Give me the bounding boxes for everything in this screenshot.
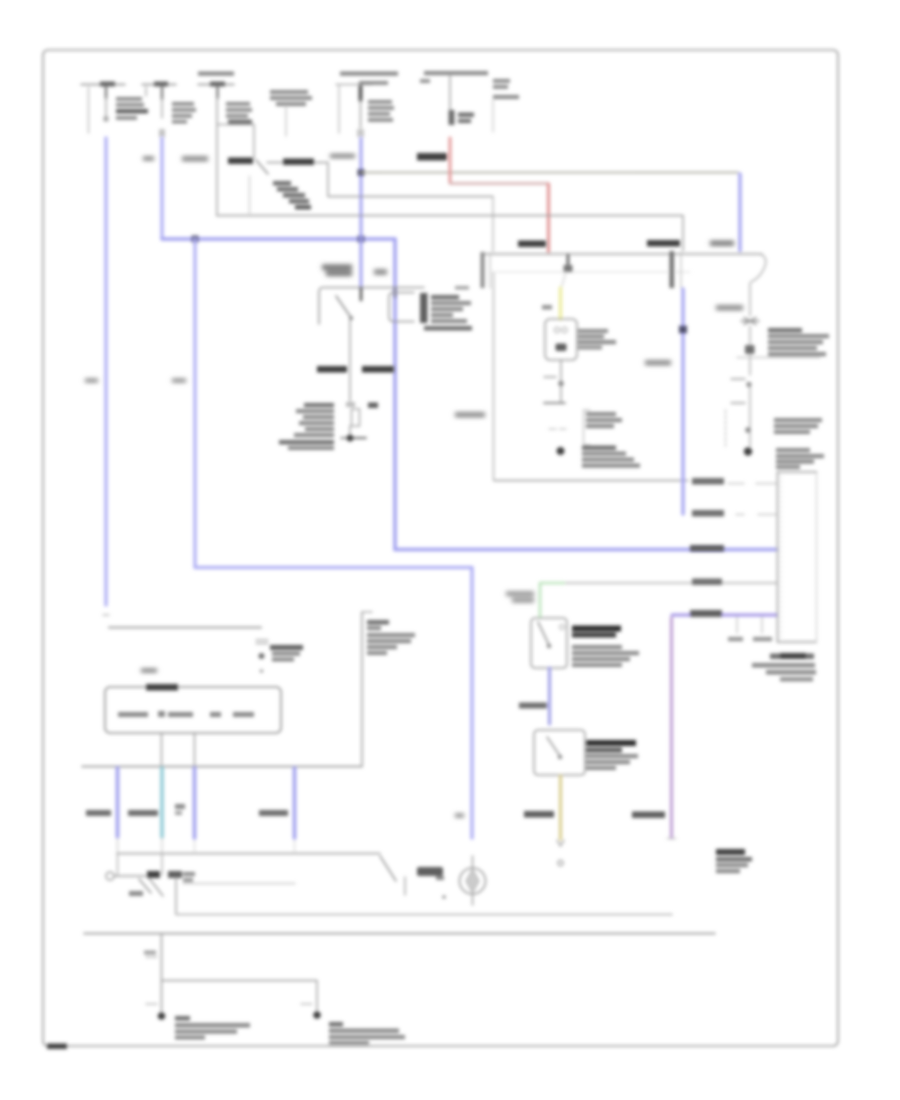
wire y615 label dark: [690, 610, 722, 617]
fuse F3 lead down: [216, 98, 218, 215]
label BLU/WHT left of blue: [645, 360, 671, 366]
thermostat switch node: [558, 381, 564, 387]
wire y514 segments to module: [736, 514, 776, 516]
condenser box bottom edge: [494, 480, 688, 482]
ground G1 text: [175, 1016, 250, 1040]
label BLU left of relay pin1: [322, 265, 352, 277]
A/C switch contact circle: [560, 625, 565, 630]
fuse F2 value label on bar: [154, 82, 168, 87]
radiator fan switch upper lead: [749, 283, 751, 316]
control module box bottom edge: [778, 641, 817, 643]
motor blob tail: [436, 876, 444, 880]
wire bus2 y853: [117, 853, 380, 855]
resistor interior text 2: [158, 711, 165, 717]
compressor terminal wing: [341, 437, 346, 439]
wire RED drop to bus: [547, 184, 550, 252]
wire YEL thermostat: [559, 288, 562, 319]
fusible link F5 side text: [359, 81, 388, 85]
fan switch contact node: [745, 427, 751, 433]
fusible link F5 element: [359, 87, 363, 100]
connector drop text 1: [728, 637, 743, 641]
fuse F1 value label on bar: [100, 82, 115, 87]
switch position bracket: [584, 410, 591, 445]
blower motor circle: [460, 868, 486, 894]
wire LT GRN vertical: [539, 583, 542, 617]
label BLU small wire1: [85, 378, 98, 383]
thermostat feed stub: [567, 255, 570, 270]
fusible link F5 header text: [340, 72, 398, 76]
label BLU/WHT near corner: [710, 241, 734, 247]
wire BLU from F5 to relay: [360, 138, 363, 287]
label BLU left of relay pin2: [374, 269, 387, 275]
label BLU/WHT mid right: [455, 412, 485, 418]
wire BLU horizontal feed: [162, 237, 395, 241]
resistor output lead 2: [194, 733, 196, 766]
wire y914 long: [176, 914, 672, 916]
fuse F2 element: [161, 87, 163, 99]
fuse F1 name text: [116, 97, 148, 120]
fuse F2 top bar: [142, 84, 176, 86]
ground connector tick 2: [146, 1003, 157, 1005]
fan switch end terminal: [744, 447, 752, 455]
fan switch lead 3: [749, 386, 751, 447]
wire bus y254: [483, 253, 762, 255]
switch input circle: [106, 872, 114, 880]
junction node blue at x195: [192, 236, 199, 243]
switch small text: [183, 872, 195, 882]
capacitor name text: [270, 645, 303, 662]
label PPL dark: [632, 812, 665, 819]
wire ignition feed y162: [267, 162, 328, 164]
wire y215 long horizontal: [217, 215, 683, 217]
switch dark blob 2: [168, 871, 182, 878]
label CYN: [128, 810, 158, 816]
connector C left bar: [481, 252, 485, 288]
junction node y172 on blue: [358, 169, 365, 176]
relay pin stub 2: [394, 288, 396, 297]
connector drop tick 2: [761, 617, 763, 633]
resistor interior text 3: [168, 712, 193, 717]
control module name text: [776, 448, 824, 469]
wire YEL end circle: [558, 860, 563, 865]
label small left of yellow: [542, 305, 552, 310]
stub F4 header text: [270, 90, 312, 106]
relay output lead to compressor: [349, 320, 351, 401]
label BLK/YEL mid: [182, 156, 208, 162]
connector C left pin: [489, 253, 491, 288]
label VIO 3: [259, 810, 288, 816]
fusible link F6 right lead: [492, 100, 494, 132]
ground bus small line: [109, 626, 261, 628]
ground branch tick: [301, 1003, 312, 1005]
compressor clutch arrow: [354, 437, 366, 439]
wire VIO drop 3: [293, 768, 297, 838]
A/C switch lever: [538, 622, 549, 645]
connector C right bar: [670, 251, 675, 288]
fusible link F6 header text: [424, 71, 488, 75]
label BLU small wire2: [172, 378, 186, 383]
thermostat contact circle 2: [562, 327, 567, 332]
stub below drop 2: [194, 840, 196, 852]
wire y549 label: [690, 545, 724, 552]
note text block right: [716, 849, 752, 873]
wire BLU blower feed horizontal: [195, 566, 472, 569]
thermostat box: [545, 319, 577, 360]
stub below drop 3: [294, 840, 296, 852]
fuse F1 left lead: [88, 87, 90, 133]
fusible link F5 name text: [368, 100, 394, 122]
control module box left edge: [777, 472, 779, 642]
control module box right edge dotted: [816, 472, 818, 642]
fuse F1 top bar: [81, 84, 125, 86]
thermostat end terminal: [557, 447, 565, 455]
ground branch wire y980: [162, 980, 318, 982]
wire YEL switch output: [559, 776, 562, 839]
thermostat switch tick 2: [544, 402, 565, 404]
ground G2 text: [329, 1022, 405, 1045]
label BLU/WHT mode: [519, 703, 547, 709]
module name text below box: [752, 653, 816, 682]
wire BLU condenser fan motor: [681, 289, 684, 514]
fusible link F5 lead: [360, 100, 362, 128]
heater fan switch box: [534, 730, 585, 775]
switch output drop: [175, 878, 177, 914]
thermostat name text: [578, 329, 616, 350]
label VIO 1: [86, 810, 111, 816]
wire LT GRN green segment: [540, 582, 564, 584]
wire BLU blower feed drop: [470, 568, 473, 838]
thermostat note text: [582, 446, 640, 468]
label dark on bus right: [647, 240, 680, 247]
capacitor node: [259, 653, 265, 659]
heater fan switch node: [558, 755, 562, 759]
connector drop text 2: [753, 637, 772, 641]
motor small dot: [442, 895, 446, 899]
heater fan switch lever: [547, 737, 560, 756]
thermostat dashes: [549, 428, 566, 430]
wire bus1 y766: [82, 766, 362, 768]
motor dark blob: [417, 867, 443, 876]
blower switch lever right: [380, 856, 396, 881]
wire BLU relay coil feed down: [393, 239, 397, 550]
wire BLU drop to blower feed: [193, 239, 196, 567]
label BLU/WHT above y162: [330, 154, 355, 159]
label LT GRN text: [506, 592, 534, 603]
relay name text block: [424, 295, 472, 331]
fuse F3 element: [216, 87, 218, 98]
thermostat switch tick: [544, 376, 556, 378]
compressor name text block: [279, 403, 334, 450]
switch position label: [129, 891, 143, 896]
wire RED from F6: [449, 138, 452, 182]
connector C right pin: [680, 252, 682, 288]
switch position text: [586, 412, 622, 428]
resistor output lead 1: [161, 733, 163, 766]
fusible link F6 value text: [458, 113, 474, 124]
thermostat lower lead: [560, 360, 562, 403]
control module box top edge: [778, 471, 817, 473]
condenser box top thin line: [496, 271, 690, 273]
capacitor lower dot: [260, 669, 264, 673]
wire YEL end tick: [557, 840, 564, 846]
A/C switch name text block: [572, 626, 639, 668]
fuse F1 connector stub: [104, 117, 109, 122]
radiator fan switch X junction: [741, 318, 759, 325]
fan switch node: [746, 382, 751, 387]
module inner pin dotted column: [780, 476, 782, 638]
fuse F3 value label on bar: [210, 82, 225, 87]
wire y162 corner drop: [327, 163, 329, 196]
fuse F2 name text: [172, 102, 196, 124]
fusible link F6 side mark: [420, 79, 430, 83]
fuse F2 right lead: [161, 99, 163, 118]
compressor connector stub: [346, 402, 355, 407]
wire curve to fan switch: [751, 254, 766, 282]
wire BLU relay output horizontal: [395, 548, 776, 552]
wire BLU F1 end tick: [103, 614, 109, 616]
ignition switch lower lead: [249, 176, 251, 214]
page border frame: [43, 50, 838, 1046]
resistor interior text 5: [233, 712, 254, 717]
heater fan switch name text: [586, 740, 638, 770]
fuse F3 branch wire right: [218, 124, 254, 126]
ignition switch stair text block: [273, 181, 311, 210]
fuse F3 top bar: [198, 84, 234, 86]
fuse F2 left lead: [145, 87, 147, 96]
connector drop tick 1: [736, 617, 738, 633]
switch input line: [114, 875, 146, 877]
wire PPL end tick: [667, 838, 676, 840]
blower resistor box: [105, 687, 281, 733]
fuse F3 name text: [226, 102, 252, 124]
thermostat feed connector blob: [564, 265, 573, 272]
wire y483 segments to module: [728, 483, 776, 485]
switch dark blob 1: [147, 871, 160, 878]
wire BLU/WHT mode feed: [548, 668, 551, 724]
compressor thermal protector: [352, 409, 360, 426]
wire BLU from F2: [160, 138, 163, 238]
wire BLU condenser drop: [738, 174, 741, 251]
fan switch position text: [774, 418, 822, 434]
thermostat contact circle 1: [554, 327, 559, 332]
blower motor shaft line: [472, 856, 474, 905]
A/C switch box: [531, 618, 567, 668]
switch position stroke 2: [149, 878, 163, 896]
ground connector text 1: [144, 951, 156, 955]
label dark on ignition feed: [228, 158, 253, 165]
relay pin label: [455, 286, 469, 290]
wire y483 label: [692, 478, 724, 485]
small icon between wires: [175, 804, 185, 815]
fusible link F5 connector stub: [357, 129, 364, 137]
wire LT GRN y583 horizontal: [540, 582, 776, 584]
bus2 drop a: [117, 854, 119, 875]
ground terminal G2: [313, 1011, 321, 1019]
wire PPL vertical: [670, 618, 673, 838]
relay lever joint: [349, 316, 353, 320]
bus2 drop b: [161, 854, 163, 875]
fan switch tick 2: [731, 402, 745, 404]
fusible link F6 name text: [493, 79, 519, 99]
resistor interior text 1: [118, 712, 148, 717]
wire BLU/WHT y615 horizontal: [672, 614, 776, 617]
A/C switch lever node: [547, 644, 551, 648]
condenser box left edge: [493, 272, 495, 480]
wire BLK/YEL y172 horizontal: [361, 172, 738, 174]
junction node blue at x361: [358, 236, 365, 243]
label dark on wire y162: [283, 159, 314, 166]
relay pin stub 1: [360, 288, 363, 300]
wire drop x493 to connector: [492, 197, 494, 252]
wire RED horizontal: [450, 182, 548, 185]
resistor interior text 4: [210, 712, 221, 717]
stub F4 lead: [285, 105, 287, 136]
compressor lead: [349, 426, 351, 434]
wire y215 drop to connector: [682, 216, 684, 251]
heater control panel top tick: [362, 611, 372, 613]
blower resistor header label: [146, 684, 178, 691]
junction diamond on blue: [679, 326, 687, 334]
thermostat feed link: [562, 272, 567, 287]
A/C compressor relay outline: [319, 288, 424, 325]
compressor terminal node: [347, 435, 354, 442]
thermostat element blob: [556, 344, 567, 352]
fuse F1 right lead: [105, 98, 107, 120]
relay coil dark bar: [420, 293, 428, 323]
label dark left of red wire: [417, 153, 447, 161]
label M motor: [368, 403, 378, 409]
ignition switch lever: [256, 160, 268, 174]
fusible link F6 element: [449, 110, 455, 125]
ground branch drop: [316, 981, 318, 1013]
label BLK/WHT dark 2: [362, 366, 394, 373]
wire VIO drop 1: [116, 768, 120, 837]
label dark on bus left: [518, 241, 546, 248]
radiator fan inline connector: [745, 345, 755, 354]
blower motor inner diamond: [466, 869, 479, 893]
stub below cyan: [161, 838, 163, 853]
label BLK/WHT dark 1: [317, 366, 347, 373]
reference underline wire y357: [737, 357, 820, 359]
wire y883 short: [183, 883, 295, 885]
label BLU/WHT fan: [716, 305, 743, 311]
fan switch name text: [768, 328, 829, 356]
fan switch tick 1: [731, 378, 745, 380]
ground connector tick 1: [146, 956, 157, 958]
wire y583 label: [692, 579, 722, 586]
label BLU small blower feed: [455, 813, 464, 818]
fuse F3 branch drop: [253, 125, 255, 159]
wire y514 label: [692, 510, 724, 517]
stub below drop 1: [117, 838, 119, 853]
fuse F3 header text: [198, 72, 234, 76]
relay contact lever: [336, 296, 352, 319]
fusible link F5 top bar: [336, 84, 372, 86]
relay coil outline: [389, 293, 414, 322]
label BLU small left: [143, 156, 154, 161]
fuse F1 element: [105, 87, 107, 98]
capacitor component lines: [256, 640, 268, 644]
wire y196 horizontal: [328, 196, 493, 198]
page number mark on bottom border: [47, 1044, 67, 1050]
radiator fan lead 2: [749, 354, 751, 375]
ground terminal G1: [158, 1012, 166, 1020]
label YEL dark: [524, 811, 554, 818]
wire BLU from F1: [104, 138, 107, 605]
ground drop main: [161, 934, 163, 1014]
fusible link F6 lead: [449, 76, 451, 110]
heater control panel text: [367, 620, 415, 655]
switch position stroke 1: [139, 879, 151, 893]
fuse F2 connector stub: [159, 129, 165, 137]
fan switch mechanical link dashed: [725, 410, 727, 446]
radiator fan switch lead: [749, 326, 751, 344]
motor lead tick: [404, 877, 406, 895]
heater control panel riser: [361, 612, 363, 766]
wire CYN drop: [160, 768, 164, 837]
wire VIO drop 2: [193, 768, 197, 838]
fusible link F5 left lead: [338, 86, 340, 133]
wire bus3 y933: [84, 933, 715, 935]
connector label C: [141, 668, 157, 673]
